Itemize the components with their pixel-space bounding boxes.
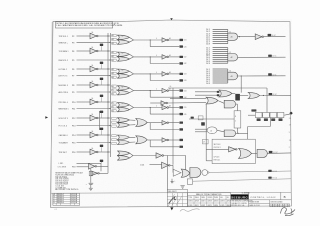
pull-up resistor R2 — [100, 44, 103, 46]
wire input row REM VOL 2 — [77, 59, 111, 61]
net label row 6 upper — [179, 122, 183, 124]
svg-text:P6: P6 — [72, 69, 74, 71]
resistor R18 — [89, 171, 92, 176]
svg-text:DWG NO 409680: DWG NO 409680 — [271, 202, 283, 204]
svg-text:B: B — [54, 196, 55, 198]
svg-text:P9: P9 — [72, 92, 74, 94]
NOR gate U2A — [117, 52, 129, 57]
net label S8 out — [269, 151, 273, 153]
svg-text:41821: 41821 — [195, 205, 199, 207]
NOR gate U6A — [117, 118, 129, 123]
svg-text:409673: 409673 — [208, 201, 213, 203]
svg-text:P2: P2 — [72, 36, 74, 38]
svg-text:EC1: EC1 — [71, 194, 74, 196]
svg-text:P13: P13 — [72, 125, 75, 127]
wire input row CAN SEL 6 — [77, 134, 91, 136]
wire S8 output to edge — [267, 152, 291, 155]
net label row 179 — [268, 177, 271, 179]
wire branch row 7 — [149, 140, 151, 147]
AND gate S4 — [224, 100, 235, 108]
svg-text:K1: K1 — [122, 36, 124, 38]
OR gate S7 — [239, 148, 252, 158]
sheet border frame — [50, 20, 291, 207]
svg-text:14 9: 14 9 — [206, 63, 210, 65]
diode CR4 — [235, 94, 240, 101]
AND gate G2 — [228, 54, 238, 61]
capacitor C2 polarized — [89, 182, 94, 184]
svg-text:CB3: CB3 — [184, 74, 187, 76]
svg-text:2: 2 — [289, 147, 290, 149]
capacitor C3 — [171, 179, 173, 182]
buffer inverter U5C — [162, 105, 167, 109]
net label row 3 upper — [179, 73, 183, 75]
svg-text:REV 40-6: REV 40-6 — [57, 202, 64, 204]
sheet cells — [270, 204, 272, 207]
svg-text:24: 24 — [289, 118, 291, 120]
AND gate S8 — [257, 149, 267, 157]
svg-text:RST 14 1: RST 14 1 — [214, 159, 221, 161]
wire long row 88 — [168, 87, 267, 89]
svg-text:MEM RUN 5: MEM RUN 5 — [59, 108, 69, 110]
svg-text:P4: P4 — [72, 51, 74, 53]
wire buffer 5 output — [169, 107, 179, 109]
group 1 input bus — [227, 29, 229, 43]
wire drop to bottom chain — [185, 156, 187, 171]
svg-text:TRIP SOL 1: TRIP SOL 1 — [59, 36, 69, 38]
svg-text:ADD CRD 4: ADD CRD 4 — [59, 91, 69, 94]
svg-text:JB: JB — [75, 194, 77, 196]
wire relay feed row 119 — [189, 118, 234, 120]
buffer inverter U6D — [162, 121, 167, 125]
svg-text:41825: 41825 — [220, 205, 224, 207]
svg-text:SEEBURG: SEEBURG — [231, 195, 248, 199]
left border inner line — [51, 22, 52, 207]
AND gate U13 — [190, 168, 201, 178]
NOR gate U1A — [117, 35, 129, 40]
wire G3 output to edge — [237, 75, 286, 77]
svg-text:P15: P15 — [72, 142, 75, 144]
svg-text:JB: JB — [75, 196, 77, 198]
gate cluster 5 input stubs — [112, 102, 116, 104]
wire branch row 6 — [149, 123, 151, 130]
wire input row PLY CTL 6 — [77, 125, 111, 127]
relay coil K1 box — [234, 111, 241, 128]
buffer inverter U1C — [162, 38, 167, 42]
NOR gate U3A — [117, 69, 129, 74]
wire cap to ground — [90, 185, 92, 189]
svg-text:2N414: 2N414 — [201, 197, 205, 199]
svg-text:TOR MEM 1: TOR MEM 1 — [59, 51, 69, 53]
AND gate G1 — [228, 33, 238, 40]
wire inverter output row 6 — [98, 117, 110, 119]
NOR gate U7A — [117, 135, 129, 140]
svg-text:SCN CUT 5: SCN CUT 5 — [59, 118, 68, 120]
svg-text:REV 40-5: REV 40-5 — [57, 200, 64, 202]
svg-text:06: 06 — [170, 86, 172, 88]
svg-text:13: 13 — [230, 71, 232, 73]
wire buffer 7 output — [169, 139, 179, 141]
title cell dividers — [248, 192, 250, 206]
group 3 input bus — [227, 69, 229, 83]
wire U9A output — [97, 165, 108, 167]
approvals box — [167, 189, 187, 192]
svg-text:GE: GE — [227, 197, 229, 199]
signature scribble bottom center — [180, 209, 200, 212]
svg-text:L4: L4 — [122, 90, 124, 92]
wire into S3 upper — [170, 98, 206, 100]
wire row 163 — [77, 162, 102, 164]
wire into B1 — [206, 148, 228, 150]
net label row 6 lower — [179, 128, 183, 130]
svg-text:SERVICE +: SERVICE + — [59, 42, 68, 44]
svg-text:P18: P18 — [72, 167, 75, 169]
wire buffer 2 output — [169, 56, 179, 58]
wire G1 output — [238, 36, 256, 38]
wire branch row 1 — [150, 39, 151, 40]
wire inverter U8C output — [163, 155, 185, 157]
NOR gate U12 — [181, 169, 190, 177]
wire S1 output — [232, 93, 235, 95]
svg-text:41823: 41823 — [208, 205, 212, 207]
svg-text:P10: P10 — [72, 102, 75, 104]
wire vertical x206 — [205, 104, 207, 161]
wire cluster 7 to OR — [129, 136, 135, 138]
net label row 5 lower — [179, 113, 183, 115]
revision table — [53, 193, 80, 205]
wire input row TOR MEM 1 — [77, 50, 91, 52]
svg-text:SET 14 8: SET 14 8 — [214, 144, 221, 146]
wire cluster 5 output — [129, 105, 133, 108]
inverter gate row 1 — [90, 33, 97, 39]
wire K1 bottom — [236, 128, 238, 133]
wire input row SERVICE + — [77, 41, 111, 43]
wire into S5 — [195, 128, 207, 130]
svg-text:41820: 41820 — [188, 205, 192, 207]
NOR gate U5B — [117, 107, 129, 112]
NOR gate U3B — [117, 74, 129, 79]
svg-text:TON ARM 7: TON ARM 7 — [59, 141, 69, 144]
relay contact K1-4 — [277, 112, 284, 117]
net label row 3 lower — [179, 79, 183, 81]
svg-text:EC5: EC5 — [71, 202, 74, 204]
buffer inverter U3C — [162, 72, 167, 76]
svg-text:1: 1 — [235, 121, 236, 123]
gate cluster 7 input stubs — [112, 135, 116, 137]
wire cluster 6 to OR — [129, 119, 135, 121]
inverter gate row 8 — [90, 149, 97, 155]
buffer inverter U7D — [162, 138, 167, 142]
svg-text:41824: 41824 — [214, 205, 218, 207]
svg-text:SEL: SEL — [220, 197, 223, 199]
wire input row TRIP SOL 1 — [77, 35, 91, 37]
inverter gate row 5 — [90, 99, 97, 105]
wire buffer 1 output — [169, 39, 179, 41]
NOR gate U6B — [117, 123, 129, 128]
OR gate S2 — [248, 92, 259, 98]
OR gate S3 — [206, 97, 218, 104]
top center mark — [170, 18, 173, 20]
wire buffer 4 output — [169, 90, 179, 92]
wire CR4 to S2 — [240, 94, 248, 96]
ground symbol GND1 — [89, 187, 93, 189]
wire G2 output to edge — [238, 56, 286, 58]
net label row 5 upper — [179, 106, 183, 108]
resistor R17 — [100, 160, 103, 162]
svg-text:LET SEL 2: LET SEL 2 — [59, 69, 68, 71]
wire cluster 4 output — [129, 88, 133, 91]
notes box — [56, 22, 113, 28]
svg-text:JB: JB — [75, 200, 77, 202]
wire input row NUM SEL 3 — [77, 84, 91, 86]
svg-text:17: 17 — [289, 124, 291, 126]
relay contact K1-1 — [255, 112, 262, 117]
svg-text:409674: 409674 — [214, 201, 219, 203]
buffer triangle U11 — [173, 169, 181, 176]
gate cluster 6 input stubs — [112, 117, 116, 119]
wire into S3 lower — [168, 102, 207, 104]
vertical bus wire C — [98, 111, 100, 130]
wire input row PRC REL 4 — [77, 101, 91, 103]
wire G3 drop — [241, 75, 242, 76]
svg-text:NUM SEL 3: NUM SEL 3 — [59, 85, 68, 87]
relay chain label — [251, 109, 256, 111]
svg-text:2. ALL CAPACITANCE VALUES IN M: 2. ALL CAPACITANCE VALUES IN MFD. 3. ALL… — [56, 24, 123, 27]
svg-text:P16: P16 — [72, 152, 75, 154]
gate cluster 4 input stubs — [112, 85, 116, 87]
net label row 1 upper — [179, 39, 183, 41]
wire S4 output — [236, 103, 238, 105]
group 2 input bus — [227, 48, 229, 64]
wire branch row 2 — [150, 56, 151, 57]
wire U10 output — [170, 164, 173, 166]
svg-text:CB2: CB2 — [184, 57, 187, 59]
svg-text:9: 9 — [289, 132, 290, 134]
svg-text:REV 40-4: REV 40-4 — [57, 198, 64, 200]
net label S2 out — [269, 93, 273, 95]
inverter U15 — [255, 34, 262, 40]
inverter gate row 2 — [90, 48, 97, 54]
svg-text:K2: K2 — [122, 53, 124, 55]
svg-text:L 38 1: L 38 1 — [59, 163, 64, 165]
pull-up resistor R4 — [100, 78, 103, 80]
NOR gate U4A — [117, 86, 129, 91]
wire U17 input — [150, 102, 161, 104]
transistor table — [188, 193, 231, 207]
NOR gate U8A — [117, 151, 130, 156]
wire inverter output row 4 — [98, 84, 110, 86]
net label row 172 — [268, 170, 271, 172]
svg-text:409672: 409672 — [201, 201, 206, 203]
svg-text:L2: L2 — [122, 57, 124, 59]
svg-text:EC2: EC2 — [71, 196, 74, 198]
wire feedback up — [247, 127, 249, 134]
svg-text:CB1: CB1 — [184, 40, 187, 42]
svg-text:P3: P3 — [72, 42, 74, 44]
gate cluster 1 input stubs — [112, 34, 116, 36]
wire long output row 179 — [193, 179, 291, 181]
wire S2 output to edge — [260, 94, 291, 96]
wire OR 7 output — [148, 139, 163, 141]
junction blobs S1 inputs — [217, 91, 220, 93]
vertical bus wire B — [109, 33, 111, 157]
net label row 4 lower — [179, 96, 183, 98]
AND gate G3 — [228, 72, 238, 80]
buffer inverter U4C — [162, 88, 167, 92]
wire inverter output row 2 — [98, 50, 110, 52]
logo box SEEBURG — [231, 194, 249, 199]
wire S6 to box — [247, 133, 249, 139]
svg-text:EC4: EC4 — [71, 200, 74, 202]
wire S3 output — [218, 101, 224, 104]
svg-text:14 8: 14 8 — [206, 43, 210, 45]
svg-text:CYC SW 8: CYC SW 8 — [58, 167, 67, 169]
inverter U16 — [229, 147, 236, 152]
svg-text:B: B — [284, 195, 286, 199]
wire input row MEM RUN 5 — [77, 108, 111, 110]
wire inverter output row 7 — [98, 134, 110, 136]
svg-text:REV 40-3: REV 40-3 — [57, 196, 64, 198]
svg-text:1 401: 1 401 — [140, 165, 144, 167]
svg-text:L6: L6 — [210, 130, 212, 132]
pull-up resistor R6 — [100, 111, 103, 113]
function box B1 — [212, 139, 255, 163]
vertical bus wire A — [107, 33, 109, 173]
wire branch row 5 — [150, 107, 151, 108]
svg-text:P14: P14 — [72, 135, 75, 137]
svg-text:EC3: EC3 — [71, 198, 74, 200]
wire cluster 8 output — [130, 153, 133, 155]
pull-up resistor R5 — [100, 95, 103, 97]
NOR gate U1B — [117, 40, 129, 45]
pencil slashes — [168, 194, 181, 206]
wire into S1 upper — [195, 91, 219, 93]
inverter U10 — [162, 162, 169, 168]
svg-text:409675: 409675 — [220, 201, 225, 203]
svg-text:P7: P7 — [72, 76, 74, 78]
wire inverter output row 8 — [98, 151, 110, 153]
svg-text:2N398: 2N398 — [214, 197, 218, 199]
svg-text:CONTROL, LOGIC: CONTROL, LOGIC — [250, 197, 276, 199]
wire inverter output row 1 — [98, 35, 110, 37]
svg-text:L1: L1 — [122, 40, 124, 42]
svg-text:J7: J7 — [203, 141, 205, 143]
wire vertical RC leg — [90, 169, 92, 183]
svg-text:K5: K5 — [122, 103, 124, 105]
net label row 2 upper — [179, 56, 183, 58]
gate cluster 2 input stubs — [112, 51, 116, 53]
dark blob lower — [201, 122, 205, 125]
svg-text:2N404: 2N404 — [195, 197, 199, 199]
OR gate U7C — [136, 136, 147, 144]
svg-text:4 1: 4 1 — [54, 209, 57, 211]
bottom center mark — [170, 207, 173, 210]
wire row 166.8 — [77, 166, 89, 168]
wire input row TRK SW 7 — [77, 151, 91, 153]
svg-text:409671: 409671 — [195, 201, 200, 203]
buffer inverter U2C — [162, 55, 167, 59]
svg-text:L3: L3 — [122, 74, 124, 76]
net label out 2 — [268, 55, 272, 57]
svg-text:TRK SW 7: TRK SW 7 — [59, 152, 68, 154]
wire U9B output — [100, 172, 108, 174]
net label row 2 lower — [179, 62, 183, 64]
signature scribble bottom right — [281, 208, 296, 216]
NAND gate S1 — [219, 90, 232, 97]
svg-text:409670: 409670 — [188, 201, 193, 203]
svg-text:CB5: CB5 — [184, 107, 187, 109]
net label row 7 lower — [179, 146, 183, 148]
relay contact chain line — [248, 114, 255, 116]
inverter U8C — [156, 153, 162, 158]
svg-text:41822: 41822 — [201, 205, 205, 207]
wire into S1 lower — [195, 94, 219, 96]
wire inverter output row 5 — [98, 101, 110, 103]
ground symbol GND2 — [180, 185, 184, 187]
wire S7 output — [252, 152, 258, 154]
inverter gate row 3 — [90, 66, 97, 72]
wire inverter output row 3 — [98, 68, 110, 70]
net label row 4 upper — [179, 89, 183, 91]
svg-text:P5: P5 — [72, 60, 74, 62]
wire input row ADD CRD 4 — [77, 91, 111, 93]
svg-text:PLY CTL 6: PLY CTL 6 — [59, 125, 68, 127]
circle gate S5 — [207, 127, 217, 134]
svg-text:P12: P12 — [72, 118, 75, 120]
svg-text:14 8: 14 8 — [206, 83, 210, 85]
svg-text:ALL DIODES TYPE 1N3754 G: ALL DIODES TYPE 1N3754 G — [55, 188, 79, 191]
wire to inverter U10 — [150, 164, 162, 166]
wire input row LET SEL 2 — [77, 68, 91, 70]
svg-text:E: E — [54, 202, 55, 204]
wire cluster 1 output — [129, 37, 133, 40]
wire U15 output to edge — [264, 35, 286, 37]
OR gate U6C — [136, 119, 147, 127]
NOR gate U7B — [117, 140, 129, 145]
wire buffer 6 output — [169, 122, 179, 124]
pull-up resistor R8 — [100, 145, 103, 147]
inverter gate row 6 — [90, 115, 97, 121]
inverter gate row 4 — [90, 82, 97, 88]
svg-text:JB: JB — [75, 198, 77, 200]
inverter U9B — [91, 171, 98, 176]
right center mark — [289, 112, 292, 115]
svg-text:P11: P11 — [72, 108, 75, 110]
NOR gate U8B — [117, 156, 130, 161]
wire vertical x173 — [172, 88, 174, 165]
buffer circle U14 — [202, 170, 208, 176]
svg-text:11: 11 — [230, 31, 232, 33]
svg-text:DET PLY 3: DET PLY 3 — [59, 76, 68, 78]
svg-text:CAN SEL 6: CAN SEL 6 — [59, 134, 68, 137]
inverter U17 — [161, 101, 166, 105]
tiny jack box — [198, 116, 203, 120]
wire long output row 172 — [209, 171, 291, 172]
wire S5 output — [217, 130, 224, 132]
svg-text:2N1305: 2N1305 — [208, 197, 213, 199]
svg-text:REM VOL 2: REM VOL 2 — [59, 60, 69, 62]
svg-text:JB: JB — [75, 202, 77, 204]
inverter gate row 7 — [90, 132, 97, 138]
svg-text:REV 40-2: REV 40-2 — [57, 194, 64, 196]
net label row 7 upper — [179, 139, 183, 141]
pull-up resistor R7 — [100, 128, 103, 130]
AND gate S6 — [224, 130, 235, 137]
interface box J7 — [203, 139, 209, 144]
net label row 1 lower — [179, 45, 183, 47]
svg-text:P8: P8 — [72, 85, 74, 87]
wire vertical x167 — [166, 156, 168, 193]
net label out 1 — [268, 34, 272, 36]
